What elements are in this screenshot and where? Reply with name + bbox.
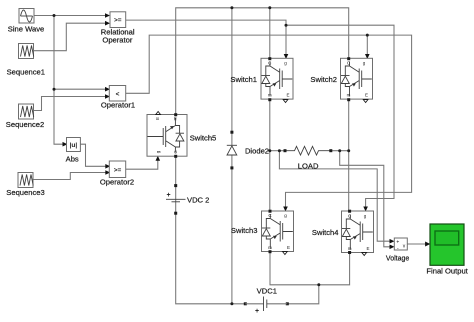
port square Switch5 top xyxy=(174,113,177,116)
block Relational Operator xyxy=(110,12,126,28)
wire bypass B to Voltage minus xyxy=(340,151,392,247)
wire Relational Operator out to Switch1 gate xyxy=(126,20,286,56)
wire Sequence2 to Operator1 in2 xyxy=(34,97,106,111)
resistor LOAD xyxy=(284,146,333,155)
arrow into scope xyxy=(425,242,430,247)
svg-text:+: + xyxy=(166,192,170,199)
svg-text:Operator2: Operator2 xyxy=(100,177,134,186)
arrow into Operator2 in1 xyxy=(105,164,110,169)
arrow into Operator1 in1 xyxy=(105,87,110,92)
arrow into Switch5 gate xyxy=(156,156,161,161)
source block Sequence3 xyxy=(18,173,33,188)
wire Diode2 bottom to bottom rail xyxy=(231,168,233,304)
arrow into Abs xyxy=(63,142,68,147)
svg-text:Switch4: Switch4 xyxy=(312,228,339,237)
arrow into Relational Operator in2 xyxy=(105,21,110,26)
wire rail drop to Diode2 xyxy=(231,8,233,132)
wire Sequence3 to Operator2 in2 xyxy=(33,173,107,180)
svg-text:Switch3: Switch3 xyxy=(231,226,258,235)
svg-text:Sine Wave: Sine Wave xyxy=(8,25,44,34)
wire Sine Wave to Relational Operator in1 xyxy=(34,15,106,17)
svg-text:Sequence3: Sequence3 xyxy=(6,188,44,197)
wire branch Operator1 signal to Switch2 gate xyxy=(366,35,368,56)
wire Operator2 out to Switch5 gate xyxy=(126,159,158,169)
IGBT block Switch3 xyxy=(262,210,294,255)
node op1 branch xyxy=(366,34,369,37)
source block Sine Wave xyxy=(19,9,34,24)
diode Diode2 xyxy=(227,131,237,170)
wire Switch2 E down to Switch4 C xyxy=(348,100,350,212)
arrow into Relational Operator in1 xyxy=(105,13,110,18)
node bypass B tap xyxy=(338,149,341,152)
battery VDC2 xyxy=(166,184,186,215)
node load left xyxy=(268,149,271,152)
svg-text:|u|: |u| xyxy=(70,142,78,149)
scope Final Output xyxy=(430,224,464,265)
node emitter rail mid xyxy=(317,283,320,286)
IGBT block Switch1 xyxy=(261,57,293,102)
wire Switch1 E down to Switch3 C xyxy=(269,100,271,212)
svg-text:m: m xyxy=(347,93,351,98)
wire top rail xyxy=(176,8,349,115)
svg-text:+: + xyxy=(255,308,259,315)
wire VDC1 right to emitter rail xyxy=(287,285,319,304)
svg-text:Sequence1: Sequence1 xyxy=(7,68,45,77)
IGBT block Switch2 xyxy=(341,57,373,102)
wire LOAD left stub xyxy=(270,150,285,152)
svg-text:E: E xyxy=(366,246,369,251)
arrow into Voltage plus xyxy=(390,239,395,244)
block Voltage Measurement xyxy=(394,238,407,252)
wire Operator1 out riser to long bus xyxy=(126,35,412,208)
svg-text:E: E xyxy=(287,245,290,250)
arrow into Switch2 gate xyxy=(365,54,370,59)
svg-text:m: m xyxy=(348,246,352,251)
port square Switch5 bottom xyxy=(174,155,177,158)
block Abs xyxy=(67,138,81,152)
node rail diode tap xyxy=(230,6,233,9)
wire Sine branch vertical to Operator1 and Abs xyxy=(54,16,64,145)
svg-text:m: m xyxy=(268,245,272,250)
wire Sequence1 riser to Relational Operator in2 xyxy=(34,23,106,51)
source block Sequence1 xyxy=(19,44,34,59)
source block Sequence2 xyxy=(19,104,34,119)
wire Voltage out to scope xyxy=(407,243,427,245)
arrow into Switch4 gate xyxy=(363,207,368,212)
arrow into Operator1 in2 xyxy=(105,94,110,99)
svg-text:E: E xyxy=(286,93,289,98)
node bypass A tap xyxy=(278,149,281,152)
node load right xyxy=(347,149,350,152)
svg-text:LOAD: LOAD xyxy=(298,161,319,170)
wire branch RelOp signal to right vertical xyxy=(286,25,394,208)
IGBT block Switch5 xyxy=(147,112,187,158)
wire bypass A to Voltage plus xyxy=(279,151,391,242)
arrow into Voltage minus xyxy=(390,245,395,250)
wire emitter rail Switch3 to Switch4 xyxy=(270,252,350,285)
battery VDC1 xyxy=(244,297,289,315)
IGBT block Switch4 xyxy=(342,210,374,256)
svg-text:Switch1: Switch1 xyxy=(230,75,257,84)
ARROWHEADS xyxy=(63,13,431,249)
node operator1 tap xyxy=(53,88,56,91)
arrow into Operator2 in2 xyxy=(105,170,110,175)
wire Abs out to Operator2 in1 xyxy=(80,144,106,166)
svg-text:Final Output: Final Output xyxy=(426,267,468,276)
svg-text:Sequence2: Sequence2 xyxy=(6,120,44,129)
unconnected port Switch5 top-left xyxy=(156,112,161,115)
svg-text:VDC 2: VDC 2 xyxy=(187,195,209,204)
node rail switch1 tap xyxy=(268,6,271,9)
arrow into Switch3 gate xyxy=(283,207,288,212)
block Operator2 xyxy=(109,161,125,178)
svg-text:m: m xyxy=(173,116,178,120)
svg-text:Switch2: Switch2 xyxy=(310,75,337,84)
wire LOAD right stub xyxy=(331,150,349,152)
wire branch to Operator1 in1 xyxy=(54,88,106,90)
svg-text:Switch5: Switch5 xyxy=(190,134,217,143)
svg-text:Operator: Operator xyxy=(102,36,132,45)
node bottom rail diode xyxy=(230,302,233,305)
svg-text:VDC1: VDC1 xyxy=(257,287,277,296)
svg-text:Operator1: Operator1 xyxy=(101,100,135,109)
svg-text:Diode2: Diode2 xyxy=(245,146,269,155)
wire rail drop to Switch1 C xyxy=(269,8,271,59)
arrow into Switch1 gate xyxy=(284,54,289,59)
node relop branch xyxy=(285,24,288,27)
svg-text:Voltage: Voltage xyxy=(386,256,409,263)
node sine branch xyxy=(53,14,56,17)
svg-text:E: E xyxy=(365,93,368,98)
svg-text:m: m xyxy=(268,93,272,98)
svg-text:<: < xyxy=(116,91,120,98)
block Operator1 xyxy=(109,86,125,102)
svg-text:>=: >= xyxy=(114,17,122,24)
wire Switch5 bottom through VDC2 to bottom rail xyxy=(176,156,246,304)
svg-text:E: E xyxy=(155,117,160,120)
svg-text:>=: >= xyxy=(114,167,122,174)
svg-text:Abs: Abs xyxy=(66,155,79,164)
